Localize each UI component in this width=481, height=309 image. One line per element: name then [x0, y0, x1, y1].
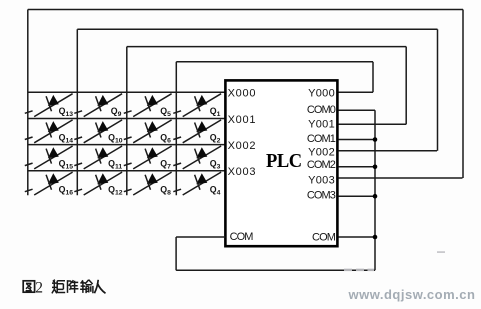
key-diode Q7	[124, 146, 172, 169]
key-diode Q16	[25, 172, 73, 195]
svg-text:X001: X001	[228, 114, 257, 126]
key-diode Q15	[25, 146, 73, 169]
svg-text:Y000: Y000	[308, 88, 335, 100]
svg-text:COM: COM	[312, 231, 336, 243]
key-diode Q4	[173, 172, 221, 195]
wire row X003	[28, 170, 226, 172]
key-diode Q5	[124, 94, 172, 117]
wire column 2	[76, 29, 78, 195]
wire COM	[339, 236, 376, 238]
key-diode Q9	[74, 94, 122, 117]
wire row X002	[28, 144, 226, 146]
wire Y002	[339, 150, 438, 152]
key-diode Q12	[74, 172, 122, 195]
svg-text:PLC: PLC	[266, 151, 302, 173]
svg-text:COM1: COM1	[307, 133, 336, 145]
wire column 1	[27, 10, 29, 196]
key-diode Q13	[25, 94, 73, 117]
wire Y003	[339, 177, 463, 179]
wire Y003 top loop	[28, 10, 463, 179]
key-diode Q1	[173, 94, 221, 117]
key-diode Q10	[74, 120, 122, 143]
key-diode Q14	[25, 120, 73, 143]
artifact dashes	[344, 251, 445, 271]
wire COM bus vertical	[374, 110, 376, 270]
wire COM0	[339, 109, 376, 111]
wire COM1	[339, 139, 376, 141]
svg-text:COM3: COM3	[307, 189, 336, 201]
svg-text:X003: X003	[228, 166, 257, 178]
key-diode Q2	[173, 120, 221, 143]
wire Y000 top loop	[176, 62, 373, 92]
wire Y000	[339, 91, 374, 93]
svg-text:COM: COM	[230, 231, 254, 243]
wire row X000	[28, 91, 226, 93]
wire Y002 top loop	[77, 29, 437, 151]
key-diode Q11	[74, 146, 122, 169]
caption 图2 矩阵输入	[23, 280, 105, 294]
key-diode Q3	[173, 146, 221, 169]
svg-text:Y003: Y003	[308, 174, 335, 186]
svg-text:www.dqjsw.com.cn: www.dqjsw.com.cn	[348, 287, 476, 302]
junction COM	[373, 235, 378, 240]
wire Y001	[339, 123, 407, 125]
svg-text:2: 2	[35, 280, 43, 297]
wire column 3	[126, 47, 128, 196]
junction COM2	[373, 165, 378, 170]
wire row X001	[28, 118, 226, 120]
PLC U1 box	[225, 80, 337, 246]
svg-text:X000: X000	[228, 88, 257, 100]
wire COM bottom loop	[176, 237, 375, 270]
svg-text:X002: X002	[228, 140, 257, 152]
wire column 4	[175, 62, 177, 196]
wire Y001 top loop	[127, 47, 406, 125]
key-diode Q6	[124, 120, 172, 143]
junction COM3	[373, 194, 378, 199]
svg-text:COM0: COM0	[307, 104, 336, 116]
key-diode Q8	[124, 172, 172, 195]
junction COM1	[373, 137, 378, 142]
wire COM3	[339, 195, 376, 197]
wire COM2	[339, 166, 376, 168]
svg-text:Y002: Y002	[308, 146, 335, 158]
svg-text:COM2: COM2	[307, 159, 336, 171]
svg-text:Y001: Y001	[308, 119, 335, 131]
